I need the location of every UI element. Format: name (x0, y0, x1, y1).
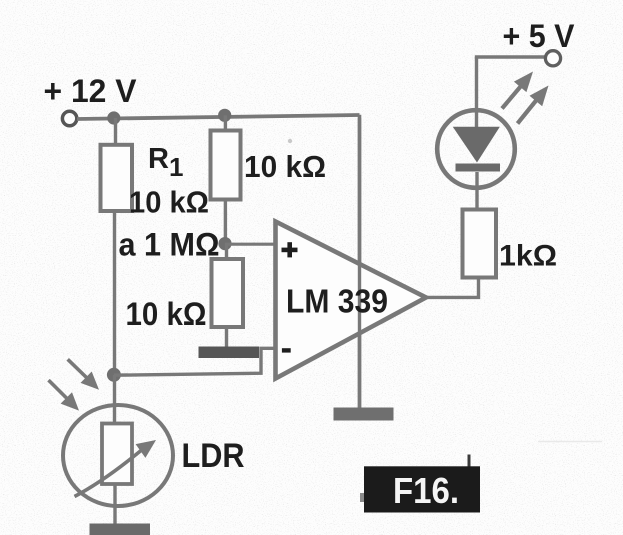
svg-text:F16.: F16. (393, 470, 459, 511)
wire LED anode (475, 57, 478, 128)
light arrow 1 onto LDR (68, 359, 99, 390)
svg-text:LDR: LDR (182, 437, 245, 475)
artifact smudge (288, 139, 292, 143)
artifact faint line (538, 441, 602, 443)
node junction dot B (top of divider) (218, 109, 231, 122)
resistor R4 1k (463, 210, 497, 278)
artifact tick above F16 (468, 455, 471, 468)
LDR circle (63, 405, 173, 506)
resistor R3 (lower 10k of divider) (212, 259, 244, 327)
terminal +12V (62, 111, 76, 125)
wire R2 top stem (224, 115, 227, 131)
wire R3 top stem (225, 244, 228, 260)
wire R3 bottom stem (225, 327, 228, 347)
svg-text:LM 339: LM 339 (286, 284, 388, 321)
LDR resistor body (102, 424, 132, 485)
ground G2 (op-amp) (334, 408, 394, 421)
svg-text:10 kΩ: 10 kΩ (129, 186, 209, 220)
svg-text:1: 1 (169, 152, 183, 182)
wire +5V rail (477, 57, 547, 59)
wire junction D to LDR (113, 375, 116, 424)
wire R1 top stem (114, 118, 117, 145)
wire V+ vertical (358, 115, 362, 408)
svg-text:10 kΩ: 10 kΩ (126, 296, 207, 332)
wire R2 bottom to node C (224, 200, 227, 245)
svg-text:+ 5 V: + 5 V (503, 18, 576, 54)
node junction dot D (LDR / R1 / - input) (107, 368, 121, 382)
pin + (non-inverting) (282, 242, 298, 257)
wire node C to op-amp + input (225, 243, 276, 246)
op-amp U1 LM339 (276, 222, 427, 379)
ground G3 (LDR) (90, 524, 151, 535)
svg-text:R: R (148, 143, 169, 175)
node junction dot C (divider midpoint) (218, 237, 231, 250)
label R1 (148, 143, 183, 182)
wire node D to - input (stepped) (114, 348, 276, 375)
wire V+/gnd line through op-amp (358, 118, 361, 408)
wire LDR bottom stem (113, 484, 116, 524)
pin - (inverting) (282, 348, 291, 352)
terminal +5V (545, 51, 560, 66)
LED D1 circle (437, 110, 515, 188)
svg-text:a 1 MΩ: a 1 MΩ (119, 227, 220, 263)
resistor R2 (upper 10k of divider) (211, 131, 241, 200)
LDR variable arrow (75, 440, 157, 497)
LED emission arrow 1 (502, 72, 533, 109)
light arrow 2 onto LDR (49, 380, 80, 411)
wire R1 bottom to LDR junction (113, 211, 116, 375)
wire R4 top stem to LED (475, 172, 478, 210)
wire op-amp output (426, 278, 479, 298)
artifact nub left of F16 (360, 493, 365, 502)
svg-text:1kΩ: 1kΩ (499, 240, 557, 273)
LED cathode bar (456, 164, 501, 172)
LED emission arrow 2 (518, 86, 549, 124)
ground G1 (divider) (199, 347, 260, 359)
LED triangle (453, 127, 500, 163)
node junction dot A (top of R1) (107, 111, 120, 124)
figure label box F16 (364, 466, 480, 512)
svg-text:+ 12 V: + 12 V (44, 73, 138, 109)
svg-text:10 kΩ: 10 kΩ (244, 150, 326, 184)
wire top rail (77, 115, 360, 119)
resistor R1 (101, 145, 133, 211)
